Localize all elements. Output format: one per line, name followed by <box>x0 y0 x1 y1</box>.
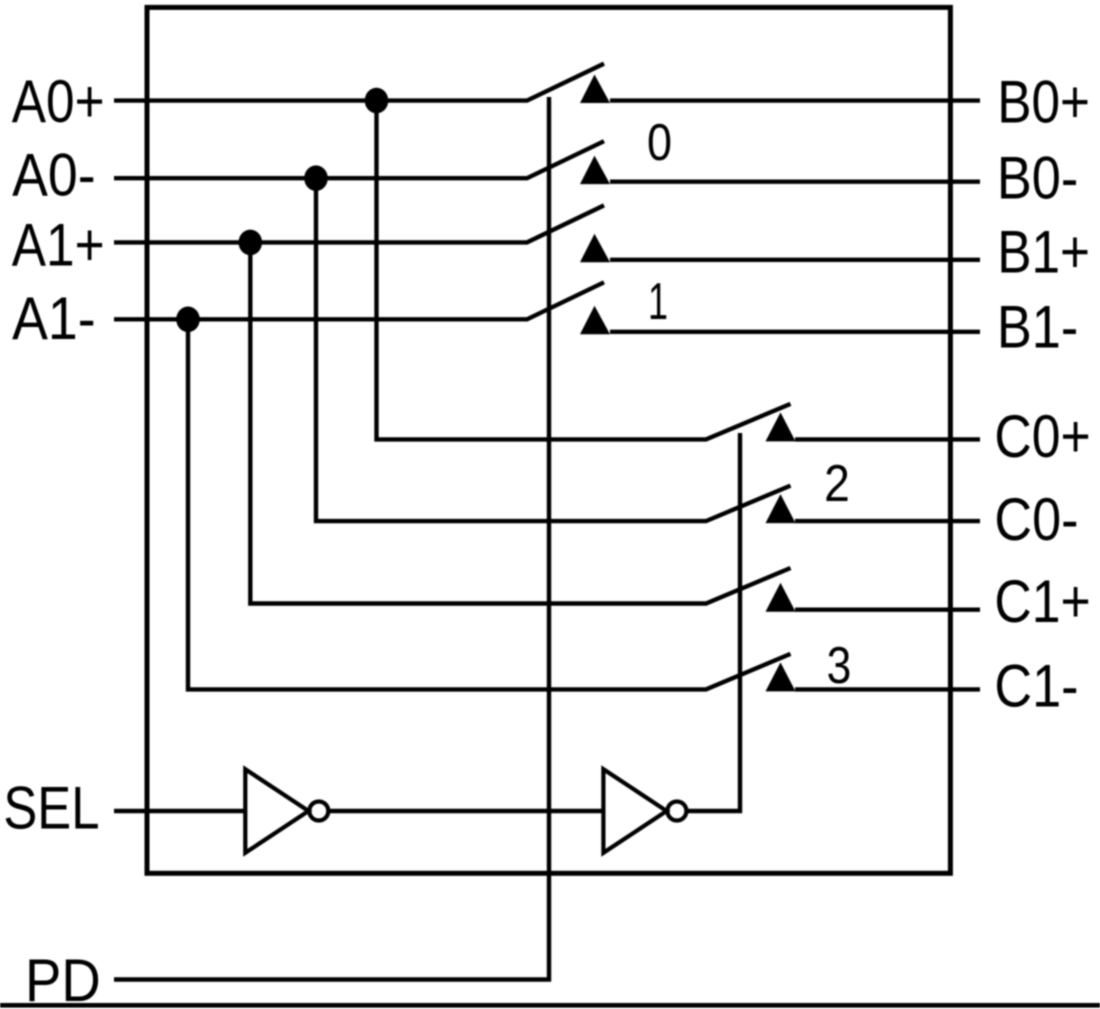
wire A0+ lead and switch 0 arm <box>114 64 604 101</box>
control net SEL2 vertical <box>686 433 740 811</box>
svg-text:B0-: B0- <box>997 145 1078 212</box>
svg-text:C0+: C0+ <box>994 403 1090 470</box>
switch arrow C1- <box>766 662 796 691</box>
control net PD vertical <box>114 97 549 980</box>
svg-text:A1-: A1- <box>12 285 96 352</box>
svg-text:C0-: C0- <box>994 486 1078 553</box>
svg-text:C1-: C1- <box>994 653 1078 720</box>
inverter U1 <box>245 769 308 853</box>
wire inverter U1 to U2 <box>330 809 604 813</box>
switch arrow B1- <box>580 306 610 335</box>
switch arrow C0- <box>766 494 796 523</box>
switch arrow B0- <box>580 156 610 185</box>
junction dot A0- <box>304 165 328 191</box>
wire SEL lead <box>114 809 245 813</box>
wire A1- branch and switch 3 arm C1- <box>188 319 791 689</box>
svg-text:SEL: SEL <box>3 774 99 841</box>
junction dot A1- <box>176 307 200 333</box>
svg-text:B1-: B1- <box>997 294 1078 361</box>
wire B0+ output <box>610 98 980 102</box>
svg-text:B1+: B1+ <box>997 219 1090 286</box>
junction dot A1+ <box>239 230 263 256</box>
switch arrow B0+ <box>580 75 610 104</box>
svg-text:A0+: A0+ <box>12 68 105 135</box>
svg-text:A0-: A0- <box>12 142 96 209</box>
svg-text:B0+: B0+ <box>997 69 1090 136</box>
svg-text:PD: PD <box>25 947 101 1009</box>
wire C0+ output <box>795 437 980 441</box>
wire A0- lead and switch 0 arm <box>114 141 604 178</box>
wire A1+ branch and switch 3 arm C1+ <box>250 242 790 603</box>
wire A0+ branch and switch 2 arm C0+ <box>377 101 791 440</box>
wire C0- output <box>795 519 980 523</box>
svg-text:1: 1 <box>648 273 668 331</box>
bottom page rule <box>0 1003 1100 1008</box>
svg-text:2: 2 <box>824 455 850 513</box>
svg-text:C1+: C1+ <box>994 568 1090 635</box>
inverter U2 <box>603 769 666 853</box>
wire B0- output <box>610 179 980 183</box>
svg-text:0: 0 <box>647 114 672 172</box>
wire C1- output <box>795 687 980 691</box>
switch arrow B1+ <box>580 234 610 263</box>
wire A0- branch and switch 2 arm C0- <box>316 178 791 521</box>
wire B1- output <box>610 330 980 334</box>
switch arrow C0+ <box>766 412 796 441</box>
junction dot A0+ <box>365 88 389 114</box>
svg-text:3: 3 <box>827 637 852 695</box>
wire A1+ lead and switch 1 arm <box>114 205 604 242</box>
wire A1- lead and switch 1 arm <box>114 282 604 319</box>
switch arrow C1+ <box>766 583 796 612</box>
wire B1+ output <box>610 258 980 262</box>
wire C1+ output <box>795 608 980 612</box>
svg-text:A1+: A1+ <box>12 211 105 278</box>
IC box outline <box>147 7 950 873</box>
